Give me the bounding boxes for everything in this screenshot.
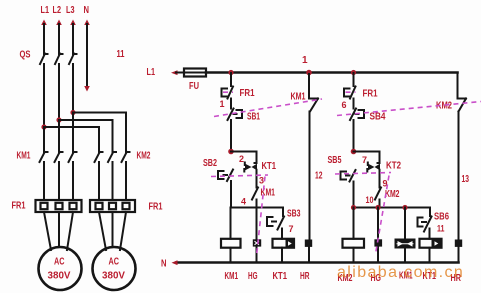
svg-text:SB1: SB1 — [247, 112, 260, 123]
svg-text:HG: HG — [248, 271, 258, 282]
wire N drop — [86, 24, 88, 87]
wire L1 drop to QS — [43, 24, 45, 54]
wire L3 QS to bend — [72, 64, 74, 113]
N feed arrow — [172, 260, 178, 265]
svg-text:KM2: KM2 — [385, 189, 400, 200]
svg-text:KT1: KT1 — [262, 161, 277, 172]
contactor KM1 pole 2 — [55, 152, 63, 162]
svg-text:1: 1 — [302, 55, 308, 66]
lamp HG2 — [374, 239, 382, 246]
disconnect QS pole 3 — [69, 54, 77, 65]
svg-text:AC: AC — [54, 257, 65, 268]
svg-text:KM1: KM1 — [225, 271, 239, 282]
node bend L1 — [41, 124, 46, 129]
FR2 heater 1 — [96, 203, 103, 209]
button SB5 NO — [341, 170, 356, 182]
lamp HR2 — [455, 240, 462, 247]
wire KM2 to FR2 x3 — [99, 162, 126, 200]
wires FR2 to motor2 — [99, 212, 126, 250]
node 5 — [351, 149, 357, 155]
thermal relay FR1 box — [36, 200, 82, 212]
contactor KM2 pole 1 — [95, 152, 103, 162]
terminal arrow L3 — [70, 20, 76, 26]
wire N bus — [177, 261, 459, 264]
svg-text:13: 13 — [462, 174, 470, 185]
lamp box bowtie — [395, 239, 416, 249]
wire branch L1 to motor2 — [44, 127, 99, 152]
wire L2 bend to KM1 — [58, 120, 60, 152]
thermal relay FR2 box — [90, 200, 135, 212]
svg-text:11: 11 — [437, 224, 445, 234]
wire 12 with KM1 contact — [309, 74, 318, 240]
wire branch1 top — [230, 73, 232, 86]
L1 feed arrow — [171, 70, 178, 75]
wire L3 drop to QS — [72, 24, 74, 54]
contactor KM2 pole 3 — [122, 152, 130, 162]
svg-text:SB6: SB6 — [434, 212, 449, 223]
linkage dash SB4 to KM2 — [337, 102, 481, 116]
terminal arrow L1 — [41, 20, 47, 26]
FR1 heater 2 — [56, 203, 63, 209]
aux contact KM2 hold — [375, 188, 381, 200]
lamp HR — [305, 240, 312, 247]
disconnect QS pole 2 — [55, 54, 63, 65]
svg-text:3: 3 — [259, 176, 264, 186]
svg-text:FR1: FR1 — [149, 202, 163, 213]
svg-text:6: 6 — [342, 100, 347, 110]
FR2 heater 3 — [123, 203, 130, 209]
svg-text:12: 12 — [315, 171, 323, 182]
linkage dash SB2 horizontal — [211, 175, 268, 177]
svg-text:SB5: SB5 — [328, 155, 342, 166]
wire 13 with KM2 contact — [458, 73, 467, 240]
thermal contact FR2 control — [344, 87, 356, 99]
svg-text:4: 4 — [241, 197, 246, 207]
node rail lamp2 — [375, 205, 380, 210]
disconnect QS pole 1 — [40, 54, 48, 65]
coil KT2 — [420, 239, 442, 248]
wire rail branch2 — [354, 208, 431, 217]
svg-text:11: 11 — [117, 49, 125, 60]
node bus branch1 — [228, 70, 233, 75]
aux contact KM1 hold — [252, 188, 258, 200]
svg-text:L1: L1 — [41, 5, 50, 16]
svg-text:FU: FU — [189, 81, 199, 92]
node bus branch2 — [351, 70, 356, 75]
button SB3 NO — [267, 217, 284, 230]
wire branch2 top — [353, 73, 355, 86]
button SB6 NO — [418, 217, 432, 232]
svg-text:L1: L1 — [147, 67, 156, 78]
linkage dash SB5 horizontal — [335, 173, 391, 175]
button SB4 NC — [350, 109, 364, 121]
thermal contact FR1 control — [222, 87, 234, 99]
wire KT2 to KM2 aux — [379, 152, 381, 188]
wire L1 bend to KM1 — [43, 127, 45, 152]
FR1 heater 1 — [41, 203, 48, 209]
wire KM1 to FR1 x3 — [44, 162, 73, 200]
motor M1 — [39, 247, 82, 290]
svg-text:HR: HR — [300, 271, 310, 282]
svg-text:10: 10 — [366, 195, 374, 205]
wire SB6 to coil — [429, 229, 431, 239]
time contact KT1 — [244, 163, 256, 172]
wire top bus — [206, 71, 458, 74]
svg-text:FR1: FR1 — [12, 201, 26, 212]
time contact KT2 — [367, 163, 379, 172]
wire KM2 aux to rail — [379, 200, 381, 208]
wire node5 to KT2 branch — [354, 151, 380, 153]
wire L3 bend to KM1 — [72, 113, 74, 153]
motor M2 — [93, 247, 136, 290]
svg-text:N: N — [84, 5, 90, 16]
svg-text:L3: L3 — [66, 5, 75, 16]
button SB1 NC — [228, 109, 243, 121]
wire KM1 aux to rail — [256, 200, 258, 208]
svg-text:380V: 380V — [102, 271, 125, 282]
svg-text:FR1: FR1 — [363, 89, 378, 100]
fuse FU — [184, 69, 206, 77]
wire SB3 to KT1 coil — [281, 229, 283, 239]
svg-text:7: 7 — [362, 155, 367, 165]
svg-text:KM1: KM1 — [291, 92, 306, 103]
lamp HG — [253, 239, 261, 246]
wire SB2 to node4 — [230, 181, 232, 208]
svg-text:KT1: KT1 — [273, 271, 288, 282]
N end arrow — [84, 86, 90, 92]
linkage dash SB1 to KM1 — [214, 99, 322, 117]
contactor KM1 pole 3 — [69, 152, 77, 162]
terminal arrow N — [84, 20, 90, 26]
contactor KM2 pole 2 — [108, 152, 116, 162]
svg-text:SB4: SB4 — [370, 112, 386, 123]
wire branch L3 to motor2 — [73, 113, 126, 153]
FR2 heater 2 — [109, 203, 116, 209]
node bend L2 — [56, 117, 61, 122]
wire branch L2 to motor2 — [59, 120, 113, 152]
svg-text:QS: QS — [20, 50, 31, 61]
wire node2 to KT1 branch — [231, 151, 257, 153]
linkage dash left vertical — [257, 177, 266, 257]
wire SB1 to node2 — [230, 120, 232, 152]
wire L1 to fuse — [176, 72, 184, 74]
button SB2 NO — [218, 170, 233, 182]
svg-text:N: N — [161, 259, 167, 270]
svg-text:7: 7 — [289, 224, 294, 234]
svg-text:alibaba.com.cn: alibaba.com.cn — [337, 264, 464, 281]
wire rail node4 — [231, 208, 283, 217]
wire L2 QS to bend — [58, 64, 60, 120]
node rail boxc — [402, 205, 407, 210]
wire SB4 to node5 — [353, 120, 355, 152]
svg-text:KM2: KM2 — [137, 151, 151, 162]
linkage dash FR2 control — [346, 91, 356, 93]
wire FR1 to SB1 — [230, 99, 232, 109]
svg-text:L2: L2 — [53, 5, 62, 16]
svg-text:SB2: SB2 — [203, 158, 217, 169]
wire KT1 to KM1 aux — [256, 152, 258, 188]
wires FR1 to motor1 — [44, 212, 73, 250]
coil KM2 — [343, 239, 365, 248]
node rail km2 — [351, 205, 356, 210]
svg-text:AC: AC — [109, 257, 120, 268]
wire L2 drop to QS — [58, 24, 60, 54]
wire SB5 to rail — [353, 182, 355, 208]
svg-text:380V: 380V — [48, 271, 71, 282]
node bus wire12 — [306, 70, 312, 76]
terminal arrow L2 — [56, 20, 62, 26]
svg-text:1: 1 — [220, 99, 225, 109]
wire FR2 to SB4 — [353, 99, 355, 109]
node bend L3 — [70, 110, 75, 115]
coil KT1 — [273, 239, 295, 248]
wire L1 QS to bend — [43, 64, 45, 127]
svg-text:FR1: FR1 — [240, 88, 255, 99]
FR1 heater 3 — [70, 203, 77, 209]
svg-text:2: 2 — [239, 154, 244, 164]
svg-text:SB3: SB3 — [287, 209, 301, 220]
contactor KM1 pole 1 — [40, 152, 48, 162]
coil KM1 — [221, 239, 241, 248]
node 2 — [228, 149, 234, 155]
linkage dash right vertical — [376, 176, 390, 255]
svg-text:KT2: KT2 — [386, 161, 401, 172]
linkage dash FR1 control — [223, 91, 233, 93]
svg-text:KM1: KM1 — [17, 151, 31, 162]
